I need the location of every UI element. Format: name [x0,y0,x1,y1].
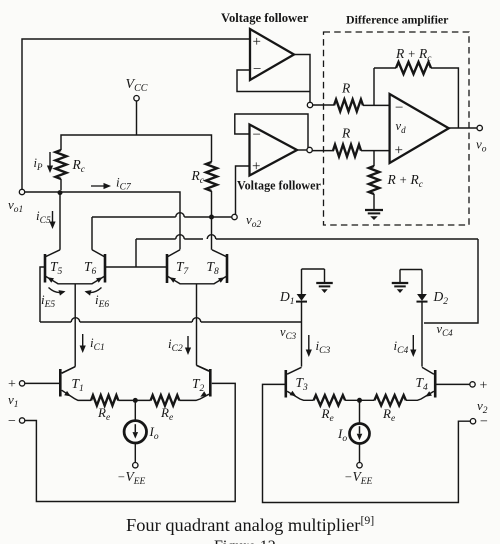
wire T3 base loop to - terminal [263,384,471,502]
T2 collector lead [197,365,210,371]
label T4 [416,375,429,393]
svg-text:iP: iP [34,156,43,172]
label R (bottom) [341,126,351,141]
sign + (v2) [480,379,488,394]
wire v1 - loop to T2 base [25,383,235,501]
U1 + input sign [253,34,261,50]
svg-text:D1: D1 [279,289,295,307]
T1 collector lead [62,367,76,374]
T6 emitter lead with arrow [92,276,105,284]
svg-text:Four quadrant analog multiplie: Four quadrant analog multiplier[9] [126,513,374,535]
wire v_o1 row to T7 collector (node v_o1 rail) [25,192,180,250]
wire R to op-amp - input [363,104,390,106]
wire V_CC rail [61,135,212,162]
node U1 output [307,102,312,107]
arrow i_C5 [49,211,55,229]
svg-text:T1: T1 [72,376,84,394]
U3 - input sign [395,100,403,116]
transistor T6 base bar [104,254,107,283]
label v_o [476,137,487,155]
resistor R + R_c (to ground) [369,166,379,194]
label i_C3 [316,338,331,356]
wire feedback tap up [373,68,375,105]
label -VEE (left) [117,469,145,487]
svg-text:+: + [395,142,403,158]
wire net v_C4 to T6/T7 bases (with hops over collectors) [136,235,478,323]
wire U2 - input feedback [235,114,308,148]
svg-text:T7: T7 [176,259,190,277]
junction dot right emitter node [357,398,362,403]
svg-text:Io: Io [149,424,159,442]
label i_P [34,156,43,172]
T3 emitter lead with arrow [287,391,314,401]
op-amp U3 (difference amplifier) [390,94,449,163]
svg-text:Re: Re [160,405,173,423]
label R_e (T2) [160,405,173,423]
label T1 [72,376,84,394]
resistor R_e (T1) [91,395,118,405]
svg-text:vo1: vo1 [8,197,23,215]
T4 emitter lead with arrow [406,391,434,400]
svg-text:Io: Io [337,426,347,444]
resistor R_c (left) [56,150,67,190]
label T5 [50,259,63,277]
svg-text:v1: v1 [8,392,19,410]
T4 collector lead [422,367,434,374]
ground (D2) [392,270,409,294]
transistor T4 base bar [434,370,437,398]
arrow i_P [47,152,53,173]
terminal - (v1) [19,418,24,423]
svg-text:Figure 12: Figure 12 [214,538,276,544]
svg-text:−VEE: −VEE [344,469,372,487]
wire T5/T6 emitters down to T1 collector [62,284,75,373]
svg-text:T3: T3 [296,375,309,393]
svg-text:T8: T8 [207,259,220,277]
label I_o (right) [337,426,347,444]
svg-text:R + Rc: R + Rc [387,172,424,190]
wire emitter node to current source (right) [359,400,361,423]
label v_o2 [246,212,262,230]
svg-text:iE5: iE5 [41,292,55,310]
T7 emitter lead with arrow [168,276,181,284]
svg-text:−: − [395,100,403,116]
wire v_o2 rail with hop over T7 collector [92,213,232,217]
label v_o1 [8,197,23,215]
svg-text:iC5: iC5 [36,208,51,226]
svg-text:Rc: Rc [72,157,86,175]
label T6 [84,259,97,277]
wire U2 output to R [312,150,334,152]
arrow i_C7 [91,183,111,189]
resistor R (bottom) [333,145,361,157]
resistor R_e (T2) [151,395,180,405]
T7/T8 emitter tie [180,283,215,285]
label i_C5 [36,208,51,226]
wire T5 collector [59,192,61,250]
svg-text:−: − [480,415,488,430]
svg-text:+: + [252,158,260,174]
op-amp U2 (bottom voltage follower) [250,125,298,176]
wire Re to center (right) [345,399,374,401]
wire V_CC to rail [136,101,138,135]
resistor R (top) [334,99,363,111]
label i_C2 [168,336,183,354]
sign + (v1) [8,377,16,392]
svg-text:iC1: iC1 [90,335,105,353]
resistor R_c (right) [206,162,217,215]
transistor T2 base bar [209,369,212,397]
T5/T6 emitter tie [58,283,93,285]
wire U2 output [297,149,307,151]
ground (difference amplifier) [365,194,383,220]
T7 collector lead [168,250,181,257]
resistor R_e (T4) [374,395,406,405]
label Voltage follower (bottom) [237,179,321,193]
resistor R_e (T3) [314,395,346,405]
svg-text:T6: T6 [84,259,97,277]
label R (top) [341,81,351,96]
junction dot below R_c (v_o1 / T5 collector) [58,190,63,195]
svg-text:−: − [253,61,261,77]
transistor T1 base bar [59,369,62,397]
label v_C4 [437,322,454,338]
wire T6 collector [91,217,93,250]
svg-text:+: + [8,377,16,392]
diode D1 [296,269,307,367]
label Difference amplifier [346,13,449,27]
svg-text:vo2: vo2 [246,212,262,230]
node U2 output [307,147,312,152]
caption [126,513,374,535]
wire + terminal to T1 base [25,382,59,384]
terminal -VEE (right) [357,463,362,468]
op-amp U1 (top voltage follower) [250,29,294,80]
wire T7/T8 emitters down to T2 collector [197,284,210,371]
label R_c (left) [72,157,86,175]
label v_d [396,119,407,135]
svg-text:R: R [341,126,351,141]
U3 + input sign [395,142,403,158]
svg-text:iC3: iC3 [316,338,331,356]
terminal -VEE (left) [133,463,138,468]
svg-text:Voltage follower: Voltage follower [237,179,321,193]
terminal node v_o1 [19,189,24,194]
arrow i_C3 [306,335,312,357]
arrow i_C1 [80,334,86,353]
terminal node v_o [477,125,482,130]
wire U3 output [449,127,477,129]
label v_C3 [280,325,297,341]
label v2 [477,398,488,416]
label R_e (T3) [321,406,334,424]
label -VEE (right) [344,469,372,487]
svg-text:v2: v2 [477,398,488,416]
U2 + input sign [252,158,260,174]
resistor R + R_c (feedback) [396,62,431,74]
terminal + (v2) [470,382,475,387]
wire U1 output to R [313,104,334,106]
svg-text:R + Rc: R + Rc [395,46,432,64]
svg-text:R: R [341,81,351,96]
wire feedback right lead down to output [431,68,458,128]
svg-text:Voltage follower: Voltage follower [221,11,309,25]
wire v_o2 to lower follower + input [236,166,250,214]
T5 emitter lead with arrow [46,276,59,284]
label R_c (right) [191,168,205,186]
svg-text:iE6: iE6 [95,292,109,310]
caption Figure 12 (clipped) [214,538,276,544]
label T3 [296,375,309,393]
svg-text:Rc: Rc [191,168,205,186]
svg-text:Difference amplifier: Difference amplifier [346,13,449,27]
svg-text:VCC: VCC [126,77,148,94]
junction dot left emitter node [133,398,138,403]
svg-text:D2: D2 [433,289,449,307]
svg-text:Re: Re [382,406,395,424]
label R + R_c (feedback) [395,46,432,64]
svg-text:iC2: iC2 [168,336,183,354]
label V_CC [126,77,148,94]
svg-text:+: + [253,34,261,50]
svg-text:T5: T5 [50,259,63,277]
wire R to op-amp + input [361,150,390,152]
ground (D1) [316,269,333,293]
svg-text:iC4: iC4 [394,338,409,356]
wire T8 collector [211,217,213,250]
label i_C1 [90,335,105,353]
svg-text:vo: vo [476,137,487,155]
transistor T5 base bar [44,254,47,283]
label Voltage follower (top) [221,11,309,25]
wire U1 output [294,55,310,103]
transistor T3 base bar [284,370,287,398]
label R + R_c (to ground) [387,172,424,190]
transistor T8 base bar [226,254,229,283]
label D2 [433,289,449,307]
T3 collector lead [287,367,301,374]
svg-text:−: − [8,414,16,429]
label D1 [279,289,295,307]
U1 - input sign [253,61,261,77]
dashed box Difference amplifier [324,32,470,225]
current source I_o (left) [124,421,146,443]
wire + terminal to T4 base [437,383,470,385]
svg-text:+: + [480,379,488,394]
svg-text:iC7: iC7 [116,175,132,193]
wire net v_C3 to T5 base (with hops over emitter stems) [40,267,302,322]
label T8 [207,259,220,277]
wire current source to -VEE [134,443,136,463]
wire U1 - input feedback [237,70,310,92]
T8 collector lead [212,250,227,257]
label i_E6 [95,292,109,310]
svg-text:vd: vd [396,119,407,135]
wire T6 base to T7 base [106,266,167,268]
label i_C7 [116,175,132,193]
svg-text:T4: T4 [416,375,429,393]
label R_e (T1) [97,405,110,423]
terminal - (v2) [470,419,475,424]
transistor T7 base bar [166,254,169,283]
label T7 [176,259,190,277]
label T2 [192,376,205,394]
curved arrow i_E5 [49,288,66,296]
wire current source to -VEE (right) [359,444,361,463]
label I_o (left) [149,424,159,442]
wire + input to grounded R + R_c [373,151,375,166]
arrow i_C2 [185,336,191,355]
label R_e (T4) [382,406,395,424]
wire feedback top left lead [374,67,396,69]
svg-text:−: − [253,127,261,143]
label i_E5 [41,292,55,310]
sign - (v2) [480,415,488,430]
wire emitter node to current source [134,400,136,420]
label v1 [8,392,19,410]
junction dot v_o2 / R_c / T8 collector [209,215,214,220]
arrow i_C4 [410,335,416,357]
sign - (v1) [8,414,16,429]
diode D2 [417,270,428,367]
terminal + (v1) [19,381,24,386]
T8 emitter lead with arrow [214,276,227,284]
T2 emitter lead with arrow [179,391,209,400]
svg-text:vC4: vC4 [437,322,454,338]
svg-text:T2: T2 [192,376,205,394]
terminal node v_o2 [232,214,237,219]
wire D1 to ground [302,268,325,270]
terminal node V_CC [134,96,139,101]
wire Re to center [118,399,150,401]
svg-text:Re: Re [97,405,110,423]
T1 emitter lead with arrow [62,390,91,400]
T6 collector lead [92,250,105,257]
svg-text:Re: Re [321,406,334,424]
wire D2 to ground [400,269,422,271]
U2 - input sign [253,127,261,143]
svg-text:vC3: vC3 [280,325,297,341]
svg-text:−VEE: −VEE [117,469,145,487]
current source I_o (right) [350,424,370,444]
T5 collector lead [46,250,61,257]
curved arrow i_E6 [85,288,102,296]
wire from v_o1 node up and across to voltage-follower + input [22,39,250,189]
label i_C4 [394,338,409,356]
